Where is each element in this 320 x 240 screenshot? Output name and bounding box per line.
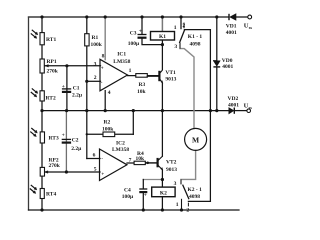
svg-text:RT2: RT2 (46, 96, 56, 102)
svg-text:5: 5 (94, 166, 97, 172)
wire VD2 cathode lead (234, 110, 246, 112)
wire IC1 pin 4 drop (104, 91, 106, 111)
svg-text:+: + (101, 66, 104, 71)
wire mid rail (42, 110, 229, 112)
svg-text:270k: 270k (47, 69, 59, 75)
svg-text:2: 2 (186, 207, 189, 213)
svg-text:+: + (62, 84, 65, 90)
diode VD0 4001 (213, 61, 220, 67)
relay contact K2-1 (181, 179, 189, 210)
wire C4 tee from emitter node (143, 179, 162, 181)
diode VD1 4001 (229, 14, 236, 20)
svg-text:+: + (62, 133, 65, 139)
resistor R2 body (103, 132, 115, 137)
capacitor C3 plates (138, 35, 147, 38)
svg-text:M: M (192, 136, 199, 145)
resistor R3 body (136, 74, 148, 78)
svg-text:K1: K1 (159, 34, 166, 40)
wire relay K1 top lead (161, 17, 163, 32)
svg-text:VD2: VD2 (228, 96, 239, 102)
svg-text:1: 1 (174, 25, 177, 31)
svg-text:RT1: RT1 (46, 37, 56, 43)
transistor Q1 VT1 9013 (147, 70, 163, 84)
capacitor C1 plates (62, 89, 71, 92)
svg-text:VT1: VT1 (165, 70, 176, 76)
svg-text:IC1: IC1 (117, 52, 126, 58)
RT2 light arrows (31, 88, 38, 97)
wire top supply rail (29, 16, 229, 18)
wire IC1 pin 8 power drop (104, 17, 106, 60)
capacitor C4 plates (139, 189, 147, 192)
wire relay K1 bottom lead / VT1 collector (161, 40, 163, 70)
svg-text:9013: 9013 (165, 76, 176, 82)
wire capacitor C1 branch (66, 66, 68, 111)
RT3 light arrows (30, 128, 37, 137)
RP1 wiper arrowhead (45, 65, 48, 68)
wire K1-1 pin2 drop from top rail (180, 17, 182, 29)
wire capacitor C3 top lead (141, 17, 143, 34)
wire VD1 cathode lead (236, 16, 248, 18)
svg-text:VD1: VD1 (226, 24, 237, 30)
svg-text:100k: 100k (91, 42, 103, 48)
svg-text:+: + (139, 28, 142, 34)
svg-text:10k: 10k (137, 89, 147, 95)
relay contact K1-1 (179, 23, 184, 49)
thermistor RT1 body (40, 33, 44, 45)
svg-text:1: 1 (176, 202, 179, 208)
svg-text:+: + (101, 172, 104, 177)
op-amp U2 IC2 LM358 triangle (100, 149, 128, 181)
wire IC1 pin 3 input from RP1 wiper (45, 65, 101, 67)
svg-text:2.2µ: 2.2µ (72, 92, 83, 98)
svg-text:2: 2 (94, 75, 97, 81)
svg-text:100µ: 100µ (122, 194, 134, 200)
svg-text:4098: 4098 (189, 194, 200, 200)
terminal Ubb top (248, 15, 252, 19)
capacitor C2 plates (62, 139, 71, 142)
wire right column pin2-pin2 (209, 30, 211, 202)
svg-text:2.2µ: 2.2µ (71, 146, 82, 152)
svg-text:100µ: 100µ (128, 41, 140, 47)
svg-text:270k: 270k (49, 163, 61, 169)
wire VD0 column top (216, 17, 218, 61)
wire K1-1 pin2 over to right column (184, 29, 210, 31)
wire motor bottom to K2-1 pin3 (181, 150, 196, 179)
wire capacitor C3 bottom lead to VT1 collector node (142, 38, 162, 45)
svg-text:RT3: RT3 (49, 136, 59, 142)
svg-text:3: 3 (174, 44, 177, 50)
svg-text:9013: 9013 (166, 167, 177, 173)
svg-text:2: 2 (182, 23, 185, 29)
svg-text:1: 1 (129, 68, 132, 74)
wire capacitor C4 leads (142, 180, 144, 211)
svg-text:ss: ss (249, 25, 253, 30)
wire bottom rail (29, 209, 240, 211)
svg-text:R1: R1 (92, 35, 99, 41)
svg-text:RT4: RT4 (46, 192, 56, 198)
wire R1 column from top rail down to pin6 corner (86, 17, 88, 159)
svg-text:+: + (144, 193, 147, 199)
svg-text:IC2: IC2 (116, 141, 125, 147)
svg-text:7: 7 (129, 157, 132, 163)
svg-text:K1 - 1: K1 - 1 (188, 34, 203, 40)
svg-text:4001: 4001 (226, 30, 237, 36)
svg-text:C4: C4 (124, 188, 131, 194)
wire IC1 output pin 1 to R3 to VT1 base (128, 75, 159, 77)
svg-text:8: 8 (102, 53, 105, 59)
wire relay K2 bottom lead (161, 197, 163, 210)
svg-text:R3: R3 (139, 82, 146, 88)
svg-text:10k: 10k (136, 156, 146, 162)
motor M (185, 128, 207, 150)
svg-text:C2: C2 (72, 137, 79, 143)
wire R2 feedback run (87, 133, 134, 135)
svg-text:4098: 4098 (190, 41, 201, 47)
thermistor RT3 body (40, 132, 44, 143)
op-amp U1 IC1 LM358 triangle (100, 59, 128, 91)
svg-text:4001: 4001 (222, 64, 233, 70)
resistor R4 body (134, 161, 145, 164)
svg-text:C3: C3 (130, 31, 137, 37)
relay K2 coil box (152, 187, 175, 197)
svg-text:RP1: RP1 (47, 59, 57, 65)
svg-text:K2 - 1: K2 - 1 (188, 187, 203, 193)
wire IC2 pin 5 input from RP2 wiper (44, 171, 100, 173)
potentiometer RP1 body (40, 59, 44, 73)
wire K1-1 contact to motor feed (180, 49, 194, 129)
svg-text:3: 3 (174, 181, 177, 187)
svg-text:K2: K2 (160, 190, 167, 196)
svg-text:VT2: VT2 (166, 159, 177, 165)
RP2 wiper arrowhead (45, 171, 48, 174)
thermistor RT4 body (40, 189, 44, 199)
wire VD0 column bottom (216, 67, 218, 110)
resistor R1 body (85, 34, 89, 46)
wire K2-1 pin2 over to right column (188, 200, 210, 202)
potentiometer RP2 body (40, 167, 44, 176)
wire VT2 emitter down to relay K2 (161, 170, 163, 187)
wire R2 right lead up to mid rail (132, 111, 134, 135)
thermistor RT2 body (40, 91, 44, 101)
svg-text:4001: 4001 (228, 102, 239, 108)
svg-text:100k: 100k (102, 127, 114, 133)
terminal Uss bottom (247, 109, 251, 113)
svg-text:ss: ss (249, 105, 253, 110)
wire IC1 pin 2 input (87, 80, 101, 82)
svg-text:6: 6 (93, 152, 96, 158)
svg-text:C1: C1 (73, 85, 80, 91)
svg-text:4: 4 (108, 90, 111, 96)
RT1 light arrows (31, 30, 38, 39)
wire IC2 output pin 7 to R4 to VT2 base (127, 162, 157, 164)
diode VD2 4001 (229, 108, 235, 114)
transistor Q2 VT2 9013 (145, 156, 163, 170)
svg-text:LM358: LM358 (113, 59, 130, 65)
wire RT sensor column (41, 17, 43, 210)
RT4 light arrows (30, 185, 37, 194)
wire left border supply line (28, 17, 30, 210)
wire IC2 pin 6 input (87, 158, 100, 160)
relay K1 coil box (151, 32, 175, 41)
wire VT1 emitter down through mid rail to VT2 collector (161, 83, 163, 156)
svg-text:3: 3 (94, 61, 97, 67)
svg-text:LM358: LM358 (112, 147, 129, 153)
svg-text:R2: R2 (104, 120, 111, 126)
wire capacitor C2 branch (65, 111, 67, 172)
